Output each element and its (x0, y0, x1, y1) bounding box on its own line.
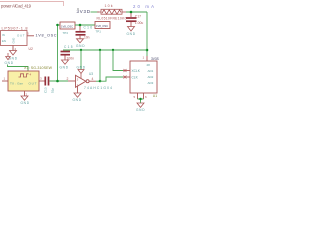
svg-text:4: 4 (92, 77, 94, 81)
svg-text:XCLK: XCLK (132, 69, 141, 73)
svg-text:2: 2 (67, 77, 69, 81)
wire right rail down to U1 (146, 12, 148, 56)
ground under U2 (9, 46, 18, 61)
svg-text:GND: GND (73, 98, 82, 102)
pin stub U1 top (146, 56, 148, 61)
svg-text:51p: 51p (51, 88, 55, 93)
svg-text:U1: U1 (153, 94, 157, 98)
svg-text:1V8_OSC: 1V8_OSC (96, 24, 108, 28)
svg-text:GND: GND (5, 61, 14, 65)
svg-text:GND: GND (136, 108, 145, 112)
inverter U3 triangle (76, 75, 90, 87)
svg-text:C16: C16 (84, 26, 93, 30)
inverter U3 input stub, pin 2 (68, 80, 75, 82)
junction right rail / GND rail (146, 49, 149, 52)
ground flag above inverter (77, 65, 86, 73)
ground rail horizontal (63, 49, 147, 51)
svg-text:AD3: AD3 (148, 81, 154, 85)
resistor R8 (97, 9, 126, 14)
xref label box 1V8_OSC (left) (56, 22, 75, 35)
X1 bottom pin stub (24, 91, 26, 96)
xref label box 1V8_OSC (right) (95, 22, 110, 34)
X1 right pin stub (39, 80, 45, 82)
oscillator X1 (8, 71, 39, 91)
wire clock jog to U1 pin 2 (100, 77, 123, 81)
capacitor C17 (126, 13, 137, 27)
svg-text:GND: GND (12, 38, 16, 44)
ground under C16 (76, 39, 85, 48)
wire vertical x100 (99, 50, 101, 81)
svg-text:3V3S: 3V3S (151, 57, 159, 61)
U1 left pin stubs (123, 70, 130, 72)
svg-text:AD2: AD2 (148, 75, 154, 79)
junction clock net (56, 80, 59, 83)
inverter output stub, pin 4 (89, 80, 96, 82)
inverter GND pin wire down (77, 86, 79, 93)
svg-text:TX : Gse: TX : Gse (10, 82, 23, 86)
junction at C16 (79, 24, 82, 27)
wire vertical x113 to U1 pin 1 (113, 50, 123, 71)
svg-text:OUT: OUT (29, 82, 37, 86)
capacitor C16 (76, 26, 86, 39)
capacitor C15 (61, 45, 75, 61)
svg-text:RL0510FRE10K0: RL0510FRE10K0 (97, 17, 127, 21)
svg-text:GND: GND (127, 32, 136, 36)
svg-text:1V8_OSC: 1V8_OSC (36, 33, 57, 37)
junction at R8/C17 (130, 11, 133, 14)
tiny page mark (77, 8, 79, 10)
wire 3V3D to R8 (91, 11, 100, 13)
svg-text:C13: C13 (44, 87, 48, 93)
junction dots on rail (80, 49, 82, 51)
wire joining U1 ground pins (138, 99, 144, 103)
inverter VCC pin wire up (80, 50, 82, 70)
wire R8 to C17 junction to corner (126, 11, 147, 13)
svg-text:U3: U3 (89, 72, 93, 76)
accelerometer U1 (130, 61, 157, 93)
svg-text:EN: EN (2, 39, 6, 43)
ground under X1 (21, 96, 30, 105)
svg-text:U2: U2 (29, 47, 33, 51)
junction at label box tee (56, 24, 58, 26)
junction output (99, 80, 102, 83)
svg-text:TP1: TP1 (96, 30, 102, 34)
svg-text:10k: 10k (105, 4, 113, 8)
svg-text:AD1: AD1 (148, 69, 154, 73)
svg-text:74AHC1G04: 74AHC1G04 (84, 86, 112, 90)
U1 bottom pin stubs, pins 5 and 6 (137, 93, 139, 99)
svg-text:10n: 10n (84, 36, 90, 40)
wire GND flag to X1 top pin (8, 65, 29, 72)
sheet frame (partial pink rectangle) (0, 2, 64, 7)
ground flag top-left of X1 (5, 53, 14, 65)
series capacitor C14 (44, 77, 55, 94)
ground under U1 (136, 103, 145, 112)
svg-text:OUT: OUT (17, 33, 25, 37)
X1 left pin stub (2, 80, 8, 82)
wire output to vertical (96, 80, 101, 82)
svg-text:28: 28 (147, 63, 151, 67)
wire vertical from label box to clock line (57, 25, 59, 81)
regulator U2 LP5907 (1, 25, 33, 50)
svg-text:GND: GND (76, 44, 85, 48)
ground under C17 (127, 27, 136, 37)
svg-text:IN: IN (2, 33, 5, 37)
svg-text:C17: C17 (135, 14, 141, 18)
ground under C15 (60, 60, 69, 69)
svg-text:X1: SG-310SEW: X1: SG-310SEW (24, 66, 53, 70)
svg-text:GND: GND (60, 65, 69, 69)
wire between label boxes (75, 24, 95, 26)
pin 5 OUT stub (27, 35, 34, 37)
ground under inverter (73, 93, 82, 102)
svg-text:power AlCad_419: power AlCad_419 (1, 4, 32, 9)
wire C14 to inverter input (50, 80, 69, 82)
svg-text:GND: GND (77, 65, 86, 69)
svg-text:1V8_OSC: 1V8_OSC (61, 24, 73, 28)
svg-text:TP3: TP3 (63, 31, 69, 35)
svg-text:1.00u: 1.00u (135, 21, 144, 25)
svg-text:C15: C15 (64, 45, 73, 49)
svg-text:LP5907-1.8: LP5907-1.8 (2, 25, 28, 30)
svg-text:CLK: CLK (132, 75, 139, 79)
svg-text:GND: GND (21, 101, 30, 105)
